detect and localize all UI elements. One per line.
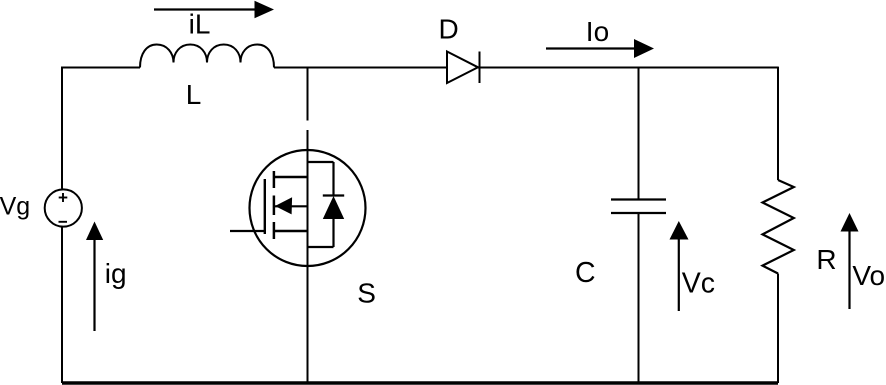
wire left upper	[61, 67, 63, 189]
svg-text:Vg: Vg	[0, 192, 30, 220]
resistor branch lower wire	[777, 274, 779, 384]
resistor R zigzag	[763, 180, 794, 274]
mosfet gate lead	[230, 230, 265, 232]
wire top right	[478, 67, 778, 69]
resistor branch upper wire	[777, 67, 779, 180]
arrow Vo	[841, 213, 859, 309]
arrow Io	[546, 39, 654, 58]
mosfet S body circle	[250, 150, 366, 266]
diode D	[447, 52, 480, 84]
mosfet channel top segment	[273, 171, 276, 188]
capacitor C plates	[611, 200, 666, 214]
body diode cathode bar	[323, 194, 344, 196]
mosfet gate bar	[264, 179, 266, 234]
svg-text:D: D	[439, 14, 459, 45]
svg-text:ig: ig	[105, 258, 127, 289]
voltage source Vg	[45, 189, 82, 226]
svg-text:Vo: Vo	[852, 260, 885, 291]
mosfet bulk connection	[274, 230, 308, 232]
body diode bottom bar	[308, 246, 334, 248]
svg-text:iL: iL	[189, 9, 211, 40]
arrow iL	[154, 1, 274, 18]
bottom wire	[62, 381, 778, 385]
inductor L	[140, 45, 274, 68]
wire left lower	[61, 228, 63, 384]
arrow Vc	[670, 221, 689, 311]
mosfet S vertical wire	[307, 130, 309, 383]
svg-text:C: C	[575, 257, 596, 289]
body diode triangle	[323, 196, 344, 219]
mosfet channel bottom segment	[273, 222, 276, 239]
svg-text:Io: Io	[586, 16, 609, 47]
capacitor branch upper wire	[638, 68, 640, 200]
mosfet channel middle segment	[273, 196, 276, 216]
wire top middle	[274, 67, 447, 69]
svg-text:Vc: Vc	[682, 267, 715, 299]
body diode top bar	[308, 161, 334, 163]
wire top-left horizontal	[61, 67, 140, 69]
body diode lower lead	[332, 219, 334, 247]
svg-text:L: L	[186, 79, 202, 110]
arrow ig	[86, 222, 103, 332]
mosfet drain connection	[274, 176, 308, 178]
mosfet source connection with arrow	[275, 197, 308, 214]
body diode upper lead	[332, 162, 334, 196]
svg-text:S: S	[357, 278, 376, 309]
svg-text:R: R	[816, 244, 836, 275]
node junction at switch top: wire stub down from top rail	[307, 67, 309, 121]
capacitor branch lower wire	[638, 213, 640, 383]
